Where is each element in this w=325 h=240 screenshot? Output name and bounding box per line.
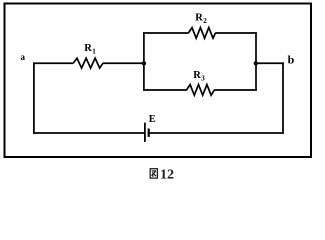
wire a-to-R1 [33, 62, 73, 64]
wire bottom branch left [143, 89, 187, 91]
wire bottom-right [150, 132, 284, 134]
battery E [144, 123, 146, 142]
svg-text:12: 12 [160, 167, 174, 182]
wire top branch left [143, 32, 189, 34]
resistor R1 [73, 58, 103, 68]
wire parallel right vertical [255, 32, 257, 91]
caption figure 12 [150, 169, 157, 178]
junction right node [254, 61, 258, 65]
wire parallel left vertical [143, 32, 145, 91]
svg-text:b: b [288, 53, 295, 67]
svg-text:R: R [195, 12, 203, 23]
resistor R2 [188, 28, 215, 39]
wire b-down [282, 62, 284, 133]
wire a-down-left [33, 62, 35, 133]
wire R1-to-junction [103, 62, 144, 64]
svg-text:a: a [21, 52, 26, 62]
svg-text:1: 1 [92, 48, 96, 56]
wire top branch right [215, 32, 257, 34]
wire junction-to-b [256, 62, 284, 64]
svg-text:E: E [149, 114, 156, 125]
svg-text:3: 3 [201, 75, 205, 83]
resistor R3 [187, 85, 215, 96]
wire bottom-left [33, 132, 145, 134]
svg-text:R: R [193, 70, 201, 81]
wire bottom branch right [214, 89, 257, 91]
svg-text:2: 2 [203, 17, 207, 25]
svg-text:R: R [84, 43, 92, 54]
junction left node [142, 61, 146, 65]
